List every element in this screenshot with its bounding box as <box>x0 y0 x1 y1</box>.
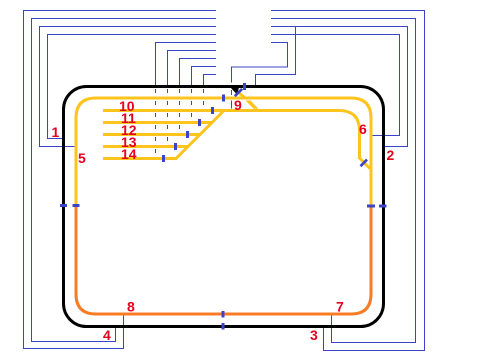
feeder tick siding 11 <box>198 119 201 126</box>
insulator tick right merge <box>361 160 368 167</box>
wire W2 black-bottom feeder (4) <box>32 19 217 342</box>
wire W15 black-top feeder branch <box>256 27 296 86</box>
yellow yard lead line (9) <box>103 111 360 159</box>
dashed drop to siding 14 <box>155 89 157 157</box>
siding track 12 <box>103 133 201 136</box>
siding track 13 <box>103 145 189 148</box>
orange inner loop lower half (sections 8/7) <box>76 206 371 314</box>
wire W6 siding 13 <box>168 51 217 87</box>
feeder tick siding 13 <box>174 143 177 150</box>
svg-text:1: 1 <box>52 124 60 140</box>
yard ladder diagonal <box>176 111 225 160</box>
feeder tick siding 14 <box>162 155 165 162</box>
insulator tick black left <box>60 204 67 207</box>
insulator tick crossover <box>235 89 242 96</box>
insulator tick yellow-orange right <box>367 205 375 208</box>
dashed drop to siding 13 <box>167 89 169 145</box>
insulator tick black bottom <box>222 323 225 330</box>
crossover black wedge <box>231 88 240 95</box>
feeder tick siding 12 <box>186 131 189 138</box>
wire W10 black-bottom-right feeder (3) <box>271 11 425 351</box>
insulator tick orange bottom <box>222 311 225 318</box>
wire W14 turnout 9 wire <box>232 43 288 83</box>
svg-text:3: 3 <box>310 327 318 343</box>
siding track 14 <box>103 157 177 160</box>
turnout 9 diagonal <box>246 101 259 109</box>
feeder tick yellow top <box>222 95 225 102</box>
siding track 11 <box>103 121 213 124</box>
wire W9 siding 10 <box>204 75 217 87</box>
wire W3 yellow-left feeder (section 5) <box>40 27 217 147</box>
dashed drop to siding 11 <box>191 89 193 121</box>
svg-text:5: 5 <box>78 150 86 166</box>
svg-text:6: 6 <box>359 121 367 137</box>
dashed drop to turnout 9 <box>231 90 233 109</box>
yellow merge diagonal right <box>359 157 371 169</box>
wire W5 siding 14 <box>156 43 217 87</box>
svg-text:4: 4 <box>103 327 111 343</box>
insulator tick yellow-orange left <box>73 204 80 207</box>
insulator tick black right <box>379 205 387 208</box>
wire W8 siding 11 <box>192 67 217 87</box>
yellow inner loop upper half (sections 5/6) <box>76 98 371 206</box>
svg-text:2: 2 <box>387 147 395 163</box>
wire W4 black-left feeder (1) <box>48 35 217 139</box>
svg-text:9: 9 <box>234 97 242 113</box>
crossover yellow diagonal <box>239 93 245 98</box>
feeder tick siding 10 <box>211 107 214 114</box>
wire W11 orange-right feeder (7) <box>271 19 416 343</box>
svg-text:7: 7 <box>336 299 344 315</box>
feeder tick black top <box>243 83 246 90</box>
black main loop <box>64 87 384 327</box>
svg-text:8: 8 <box>127 299 135 315</box>
svg-text:14: 14 <box>121 146 137 162</box>
wire W1 orange-bottom feeder (section 8) <box>24 11 217 349</box>
dashed drop to siding 12 <box>179 89 181 133</box>
wire W7 siding 12 <box>180 59 217 87</box>
wire W13 yellow-right feeder (6) <box>271 35 400 136</box>
wire W12 black-right feeder (2) <box>271 27 408 147</box>
dashed drop to siding 10 <box>203 89 205 109</box>
